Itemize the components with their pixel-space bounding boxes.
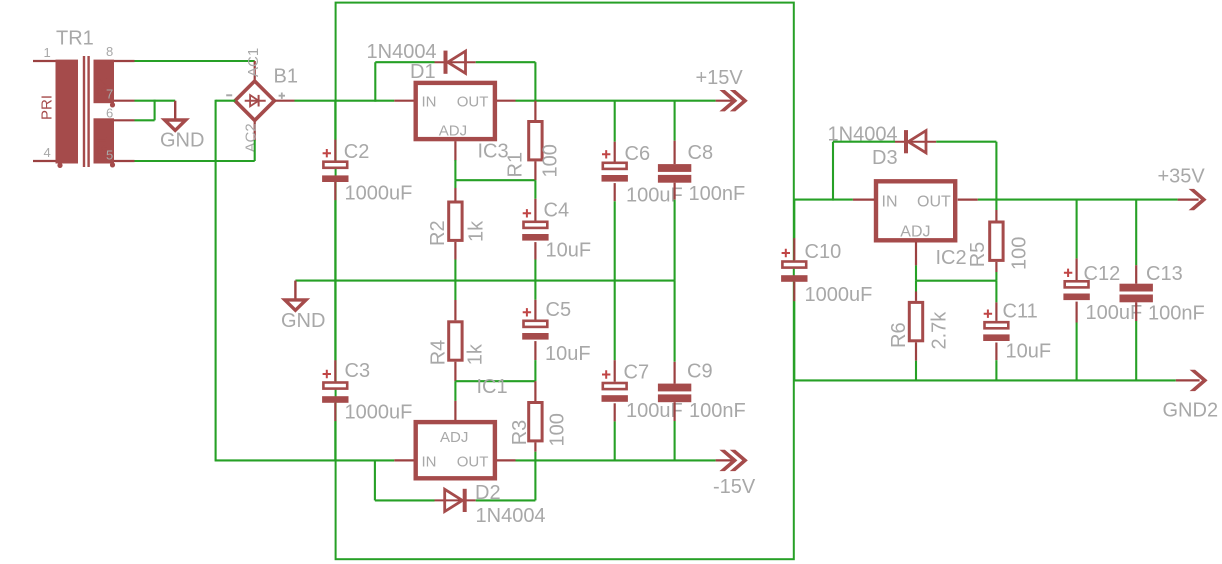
capacitor C12 bottom stub [1075,302,1077,323]
svg-text:1000uF: 1000uF [345,183,413,205]
resistor R5 bottom stub [995,262,997,272]
wire mid rail to C7 [614,281,616,361]
wire C2 top [334,101,336,140]
IC3 ADJ pin stub [454,141,456,161]
wire C9 to out rail [674,421,676,460]
resistor R4 [449,322,462,360]
capacitor C12 top stub [1075,258,1077,280]
capacitor C2 [322,149,348,182]
wire C3 bottom [334,421,336,460]
svg-text:R6: R6 [888,322,910,348]
svg-text:+15V: +15V [696,67,744,89]
capacitor C3 [322,370,348,403]
capacitor C8 bottom stub [673,183,675,200]
bridge rectifier B1 body [235,81,274,120]
wire pin6 to pin7 vertical [154,100,156,121]
IC2 ADJ pin stub [915,242,917,265]
capacitor C4 top stub [534,199,536,221]
svg-text:OUT: OUT [457,453,489,470]
transformer TR1 secondary S2 winding [94,60,115,104]
diode D3 [895,130,936,153]
wire rail to C8 [674,101,676,141]
bridge rectifier B1 minus mark [226,94,232,96]
svg-text:AC1: AC1 [245,48,262,77]
resistor R2 bottom stub [454,242,456,260]
capacitor C7 [602,370,628,402]
svg-text:AC2: AC2 [243,123,260,152]
wire pin5 to AC2 [135,160,255,162]
wire ADJ2 to C11 [995,281,997,303]
wire IC3 OUT rail [516,100,716,102]
capacitor C7 bottom stub [614,403,616,421]
svg-text:R5: R5 [967,242,989,268]
svg-text:1: 1 [44,45,51,60]
frame border (net rectangle) [336,3,794,560]
svg-text:10uF: 10uF [546,240,592,262]
diode D2 [435,489,476,512]
transformer TR1 pin 5 stub [114,160,135,162]
svg-text:C11: C11 [1003,301,1038,323]
capacitor C11 top stub [995,302,997,321]
svg-text:R3: R3 [509,420,531,446]
voltage regulator IC1 [416,422,495,478]
transformer TR1 core [84,56,89,167]
capacitor C12 [1063,269,1089,301]
svg-text:R1: R1 [504,152,526,178]
resistor R5 [990,222,1003,260]
svg-text:TR1: TR1 [56,28,94,50]
bridge rectifier B1 AC2 pin stub [254,120,256,141]
IC2 IN pin stub [853,199,874,201]
IC1 ADJ pin stub [454,401,456,420]
wire D2 bypass right [476,499,536,501]
IC1 ADJ wire [454,381,456,401]
svg-text:1N4004: 1N4004 [367,41,437,63]
wire C2 bottom [334,200,336,280]
wire ADJ2 to R6 [915,281,917,292]
resistor R5 top stub [995,210,997,221]
wire pin6 horizontal [135,119,155,121]
svg-text:-15V: -15V [713,476,756,498]
wire C4 to mid rail [534,260,536,282]
wire AC2 vertical [254,140,256,161]
IC3 IN pin stub [394,100,413,102]
supply arrow -15V [716,450,748,471]
resistor R1 [529,122,542,160]
svg-text:OUT: OUT [457,94,489,111]
resistor R4 top stub [454,300,456,320]
svg-text:5: 5 [106,148,113,163]
svg-text:100nF: 100nF [689,400,746,422]
svg-text:B1: B1 [274,66,298,88]
svg-text:8: 8 [106,44,113,59]
transformer TR1 pin 1 [33,60,56,62]
capacitor C13 [1120,284,1153,303]
wire IC2 ADJ down [915,265,917,280]
resistor R6 [909,302,922,340]
bridge rectifier B1 plus mark [279,93,285,99]
svg-text:C13: C13 [1146,263,1183,285]
resistor R3 top stub [534,381,536,401]
svg-text:10uF: 10uF [1006,341,1052,363]
wire C8 to mid rail [674,200,676,281]
resistor R2 [449,202,462,240]
wire C7 to out rail [614,421,616,460]
capacitor C9 bottom stub [673,402,675,421]
wire D3 right vertical [995,142,997,200]
wire pin8 to AC1 [135,60,255,62]
capacitor C3 top stub [334,360,336,381]
resistor R3 [529,403,542,441]
capacitor C8 top stub [673,141,675,164]
svg-text:ADJ: ADJ [440,429,468,446]
resistor R1 top stub [534,101,536,120]
wire mid ground rail [295,280,674,282]
wire D2 bypass left [375,499,435,501]
svg-text:IC2: IC2 [936,247,967,269]
bridge rectifier B1 plus pin stub [275,100,295,102]
transformer TR1 pin 8 stub [114,60,135,62]
capacitor C4 [522,209,548,241]
wire ADJ to R2 [454,180,456,188]
wire mid rail to C9 [674,281,676,362]
svg-text:C2: C2 [344,141,370,163]
capacitor C11 bottom stub [995,343,997,361]
svg-text:GND: GND [160,130,204,152]
wire C11 to GND2 rail [995,360,997,380]
transformer TR1 pin 7 stub [114,100,135,102]
IC1 OUT pin stub [497,459,516,461]
wire mid rail to R4 [454,280,456,300]
voltage regulator IC2 [876,181,955,240]
transformer TR1 secondary S1 winding [94,118,115,163]
svg-text:IN: IN [422,94,437,111]
wire C6 to mid rail [614,201,616,280]
capacitor C5 bottom stub [534,341,536,360]
resistor R1 bottom stub [534,161,536,180]
svg-text:2.7k: 2.7k [929,311,951,350]
svg-text:7: 7 [106,87,113,102]
svg-text:R4: R4 [427,340,449,366]
svg-text:C4: C4 [544,200,570,222]
capacitor C8 [658,164,691,183]
svg-text:1k: 1k [465,343,487,365]
capacitor C13 bottom stub [1135,302,1137,321]
resistor R2 top stub [454,188,456,201]
svg-text:C3: C3 [345,360,371,382]
ground GND at transformer center tap [165,101,186,131]
IC2 OUT pin stub [958,199,978,201]
ground GND mid rail [285,281,306,311]
wire bottom rail to IC1 IN [215,459,395,461]
wire ADJ2 node horizontal [916,280,996,282]
svg-text:ADJ: ADJ [900,223,930,240]
IC3 OUT pin stub [497,100,516,102]
svg-text:OUT: OUT [917,194,951,211]
capacitor C6 top stub [614,142,616,162]
svg-text:PRI: PRI [39,95,56,120]
svg-text:ADJ: ADJ [439,122,467,139]
capacitor C2 top stub [334,140,336,161]
capacitor C6 [602,150,628,182]
wire D1 bypass right [476,61,536,63]
wire rail to C13 [1135,200,1137,266]
wire B1 minus left [216,100,236,102]
voltage regulator IC3 [416,83,495,139]
svg-text:+35V: +35V [1158,166,1206,188]
wire D3 bypass right [936,141,996,143]
wire rail to R5 [995,200,997,210]
svg-text:IN: IN [422,453,437,470]
wire C13 to GND2 rail [1135,321,1137,380]
transformer TR1 polarity dot pin 4 [57,163,62,168]
svg-text:C12: C12 [1084,263,1121,285]
svg-text:1000uF: 1000uF [345,401,413,423]
svg-text:GND: GND [281,310,325,332]
svg-text:D1: D1 [410,61,436,83]
wire mid rail to C5 [534,280,536,300]
wire GND2 rail [794,379,1176,381]
capacitor C11 [983,310,1009,342]
wire pin7 to GND [135,100,176,102]
wire rail to C10 [793,200,795,239]
resistor R3 bottom stub [534,442,536,451]
svg-text:R2: R2 [427,220,449,246]
transformer TR1 polarity dot pin 7 [110,102,115,107]
wire D1 bypass left [375,61,434,63]
supply arrow +35V [1178,189,1207,210]
capacitor C9 top stub [673,362,675,384]
svg-text:IC1: IC1 [477,376,508,398]
wire IC3 ADJ down [454,160,456,180]
transformer TR1 pin 6 stub [114,119,135,121]
capacitor C10 [781,249,807,282]
svg-text:100: 100 [540,144,562,177]
wire IC2 OUT rail [978,199,1178,201]
capacitor C10 bottom stub [793,282,795,302]
svg-text:100: 100 [547,413,569,446]
wire R6 to GND2 rail [915,361,917,381]
wire C12 to GND2 rail [1076,323,1078,381]
svg-text:C7: C7 [624,362,650,384]
capacitor C9 [658,384,691,403]
wire B1 minus vertical down [215,100,217,461]
wire R3 to out rail [534,452,536,461]
wire IC1 OUT rail [516,459,716,461]
svg-text:C10: C10 [805,241,842,263]
transformer TR1 pin 4 [33,160,56,162]
svg-text:C6: C6 [625,143,651,165]
svg-text:100nF: 100nF [1148,303,1205,325]
wire D3 bypass left [833,141,895,143]
wire ADJ node horizontal [455,179,535,181]
transformer TR1 polarity dot pin 5 [110,162,115,167]
wire R5 to ADJ2 node [995,272,997,281]
capacitor C10 top stub [793,238,795,260]
svg-text:1k: 1k [466,220,488,242]
capacitor C6 bottom stub [614,183,616,201]
svg-text:GND2: GND2 [1163,400,1219,422]
capacitor C4 bottom stub [534,242,536,259]
supply arrow +15V [716,90,748,111]
supply arrow GND2 [1176,370,1208,391]
wire D1 left vertical [374,62,376,101]
svg-text:100nF: 100nF [689,183,746,205]
resistor R6 top stub [915,292,917,301]
svg-text:IN: IN [882,194,898,211]
resistor R4 bottom stub [454,362,456,382]
transformer TR1 primary winding [56,60,79,164]
wire lower ADJ node [455,380,535,382]
bridge rectifier B1 AC1 pin stub [254,61,256,82]
IC1 IN pin stub [394,459,413,461]
wire ADJ to C4 [534,180,536,199]
svg-text:C9: C9 [687,361,713,383]
diode D1 [435,51,476,74]
wire C5 to lower node [534,360,536,381]
capacitor C3 bottom stub [334,403,336,421]
wire R2 to mid rail [454,260,456,282]
capacitor C2 bottom stub [334,182,336,200]
svg-text:1000uF: 1000uF [805,284,873,306]
svg-text:D3: D3 [872,147,898,169]
wire B1 plus to IC3 IN [295,100,395,102]
capacitor C5 top stub [534,300,536,320]
wire C3 top [334,281,336,361]
capacitor C7 top stub [614,360,616,382]
wire C10 to GND2 rail [793,301,795,380]
svg-text:100uF: 100uF [1086,302,1143,324]
svg-text:1N4004: 1N4004 [476,505,546,527]
wire D1 right vertical [534,62,536,100]
svg-text:C5: C5 [546,299,572,321]
svg-text:4: 4 [44,145,51,160]
capacitor C5 [522,308,548,340]
wire D3 left vertical [832,142,834,201]
svg-text:6: 6 [106,106,113,121]
resistor R6 bottom stub [915,342,917,360]
svg-text:100: 100 [1009,237,1031,270]
wire frame to IC2 IN [794,199,853,201]
wire rail to C6 [614,101,616,142]
wire D2 left vertical [374,460,376,500]
wire rail to C12 [1076,200,1078,259]
wire D2 right vertical [534,460,536,500]
svg-text:10uF: 10uF [545,343,591,365]
capacitor C13 top stub [1135,265,1137,284]
svg-text:C8: C8 [688,142,714,164]
